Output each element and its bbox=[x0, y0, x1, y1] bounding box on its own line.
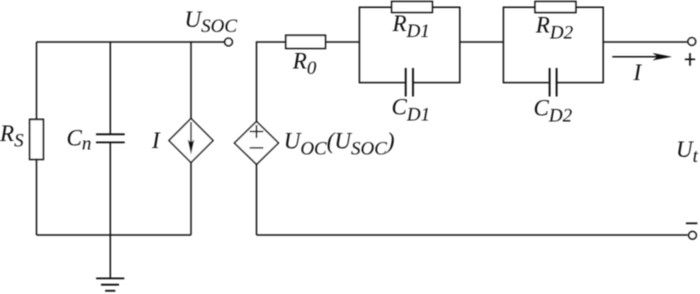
svg-text:CD2: CD2 bbox=[534, 96, 573, 127]
svg-text:Ut: Ut bbox=[676, 137, 699, 167]
wire RC2 loop frame bbox=[503, 7, 603, 82]
wire left vertical (R_S branch) bbox=[36, 42, 38, 235]
ground bbox=[96, 278, 124, 290]
svg-text:I: I bbox=[151, 128, 161, 153]
svg-text:RD2: RD2 bbox=[535, 13, 574, 44]
wire current source branch upper bbox=[190, 42, 192, 119]
svg-text:RD1: RD1 bbox=[392, 11, 430, 42]
terminal node - (bottom right) bbox=[689, 232, 697, 240]
resistor RD2 bbox=[535, 2, 576, 13]
controlled voltage source U_OC bbox=[235, 122, 279, 165]
resistor R_S bbox=[30, 119, 44, 159]
current arrow I (output) bbox=[612, 53, 672, 60]
wire left bottom bus bbox=[37, 234, 192, 236]
terminal node U_SOC bbox=[225, 38, 233, 46]
wire C_n branch upper bbox=[109, 42, 111, 134]
wire left top bus bbox=[37, 41, 225, 43]
svg-text:I: I bbox=[633, 60, 643, 85]
wire R0 to RC1 bbox=[326, 41, 360, 43]
wire output top bbox=[603, 41, 687, 43]
wire RC1 to RC2 bbox=[460, 41, 504, 43]
plus sign output bbox=[685, 53, 695, 66]
wire voltage source top bbox=[257, 42, 286, 122]
capacitor CD1 bbox=[406, 68, 413, 97]
terminal node + (top right) bbox=[688, 38, 696, 46]
svg-text:USOC: USOC bbox=[185, 7, 238, 37]
resistor R0 bbox=[286, 35, 326, 48]
svg-text:Cn: Cn bbox=[67, 125, 92, 154]
wire voltage source bottom bbox=[256, 164, 258, 235]
capacitor C_n bbox=[96, 134, 125, 142]
resistor RD1 bbox=[392, 2, 433, 13]
svg-text:UOC(USOC): UOC(USOC) bbox=[284, 128, 395, 159]
wire RC1 loop frame bbox=[359, 7, 459, 82]
svg-text:CD1: CD1 bbox=[392, 95, 431, 126]
minus sign output bbox=[686, 222, 698, 224]
wire C_n branch lower to ground bbox=[109, 143, 111, 279]
svg-text:R0: R0 bbox=[292, 49, 317, 80]
svg-text:RS: RS bbox=[0, 121, 24, 152]
wire bottom bus right bbox=[257, 234, 688, 236]
wire current source branch lower bbox=[190, 163, 192, 236]
capacitor CD2 bbox=[550, 68, 557, 97]
current source I (diamond) bbox=[169, 119, 213, 163]
